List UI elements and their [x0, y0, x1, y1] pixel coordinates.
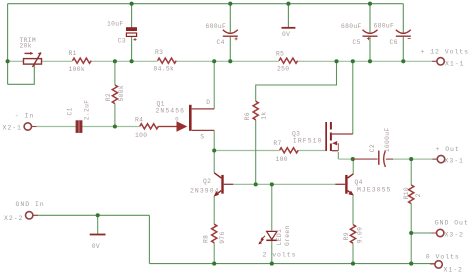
- svg-text:D: D: [206, 99, 210, 106]
- junction dots +Out rail: [351, 157, 355, 161]
- svg-text:2N5456: 2N5456: [156, 107, 186, 114]
- svg-text:R5: R5: [276, 51, 284, 58]
- svg-text:IRF510: IRF510: [293, 137, 323, 144]
- resistor R4 100: [140, 124, 159, 129]
- wire R9 bottom: [352, 243, 354, 263]
- svg-text:100: 100: [135, 132, 147, 139]
- potentiometer TRIM 20k: [24, 53, 42, 68]
- wire C2 right to R10/X3-1: [393, 158, 438, 160]
- svg-text:R6: R6: [244, 112, 251, 120]
- svg-text:100k: 100k: [69, 66, 86, 73]
- wire R7 to Q3 gate: [298, 150, 325, 152]
- junction dots base rail: [254, 182, 258, 186]
- junction dot GND out: [409, 231, 413, 235]
- svg-text:680uF: 680uF: [341, 23, 362, 30]
- svg-text:C4: C4: [217, 39, 225, 46]
- svg-text:X3-1: X3-1: [445, 157, 464, 164]
- terminal X3-2: [432, 232, 437, 234]
- svg-text:C5: C5: [353, 39, 361, 46]
- svg-text:0V: 0V: [92, 243, 100, 250]
- svg-text:2: 2: [415, 193, 422, 197]
- svg-text:+ Out: + Out: [436, 146, 460, 153]
- svg-text:Q3: Q3: [292, 130, 300, 137]
- wire -In X2-1 to C1: [32, 126, 76, 128]
- wire Q4 collector up: [352, 159, 354, 175]
- ground symbol 0V bottom: [90, 234, 106, 236]
- wire C3 leads: [131, 4, 133, 28]
- svg-text:C1: C1: [66, 107, 73, 115]
- wire Q3 source down: [337, 152, 339, 159]
- wire Q4 emitter down to R9: [352, 195, 354, 225]
- svg-text:0V: 0V: [282, 31, 290, 38]
- terminal X2-1: [32, 126, 37, 128]
- svg-text:S: S: [200, 133, 204, 140]
- svg-text:X1-2: X1-2: [444, 266, 463, 273]
- resistor R9 vertical: [350, 225, 355, 244]
- wire R10 top lead: [410, 159, 412, 185]
- capacitor C4 680uF polarized: [223, 30, 238, 34]
- wire C5 leads: [369, 4, 371, 33]
- svg-text:500k: 500k: [118, 85, 125, 102]
- terminal X3-1: [432, 158, 437, 160]
- wire pot wiper jog: [8, 65, 35, 85]
- wire R2 bottom lead: [114, 104, 116, 127]
- svg-text:G: G: [175, 117, 179, 123]
- capacitor C2 1000uF polarized: [378, 151, 380, 165]
- wire Q2 collector up: [213, 151, 215, 173]
- svg-text:976: 976: [219, 231, 226, 243]
- svg-text:Q4: Q4: [355, 179, 363, 186]
- svg-text:+ 12 Volts: + 12 Volts: [421, 48, 470, 55]
- capacitor C3 10uF polarized: [126, 27, 137, 31]
- svg-text:X2-2: X2-2: [4, 215, 23, 222]
- wire GND out horizontal: [411, 232, 436, 234]
- wire R4 to Q1 gate: [158, 126, 176, 128]
- wire C4 leads: [229, 4, 231, 33]
- svg-text:R9: R9: [343, 232, 350, 240]
- capacitor C5 680uF polarized: [363, 30, 378, 34]
- wire R6 bottom down to base rail: [255, 120, 257, 185]
- capacitor C1 2.2uF: [76, 120, 83, 133]
- wire Q2 base to Q4 base: [233, 183, 335, 185]
- wire R8 bottom: [213, 243, 215, 264]
- terminal X1-2: [430, 263, 435, 265]
- svg-text:250: 250: [277, 65, 289, 72]
- junction dots bottom rail: [212, 262, 216, 266]
- wire Q1 source down: [213, 130, 215, 150]
- svg-text:84.5k: 84.5k: [154, 65, 175, 72]
- svg-text:Q2: Q2: [203, 178, 211, 185]
- resistor R6 1k vertical: [253, 101, 258, 120]
- svg-text:Green: Green: [284, 225, 291, 246]
- wire bottom rail: [149, 263, 434, 265]
- svg-text:GND Out: GND Out: [435, 220, 469, 227]
- wire left vertical drop: [7, 4, 9, 85]
- wire ground 0V top lead: [287, 4, 289, 27]
- svg-text:MJE3055: MJE3055: [357, 186, 392, 193]
- svg-text:X2-1: X2-1: [3, 125, 22, 132]
- ground symbol 0V top: [282, 27, 296, 29]
- svg-text:R8: R8: [202, 235, 209, 243]
- svg-text:20k: 20k: [20, 43, 32, 50]
- wire GND In run: [33, 214, 149, 216]
- svg-text:R4: R4: [135, 116, 143, 123]
- svg-text:2.2uF: 2.2uF: [83, 100, 90, 121]
- wire R2 top lead: [114, 61, 116, 85]
- svg-text:1k: 1k: [261, 112, 268, 120]
- wire main rail segment pot to R1: [42, 60, 73, 62]
- wire C6 leads: [402, 4, 404, 33]
- svg-text:LED1: LED1: [276, 229, 283, 246]
- terminal X2-2: [33, 214, 38, 216]
- wire LED bottom: [271, 241, 273, 264]
- wire top rail 0V: [8, 3, 404, 5]
- svg-text:10uF: 10uF: [107, 20, 124, 27]
- svg-text:100: 100: [276, 156, 288, 163]
- wire main rail segment R1 to R3: [91, 60, 158, 62]
- wire GND In drop: [148, 215, 150, 263]
- wire main rail segment pot-left: [8, 60, 24, 62]
- svg-text:C6: C6: [390, 39, 398, 46]
- svg-text:R1: R1: [69, 50, 77, 57]
- resistor R10 2 vertical: [409, 185, 414, 204]
- svg-text:1000uF: 1000uF: [384, 128, 391, 153]
- svg-text:R2: R2: [105, 93, 112, 101]
- terminal X1-1: [432, 60, 437, 62]
- svg-text:X1-1: X1-1: [445, 60, 464, 67]
- wire Q3 source to +Out rail: [338, 158, 353, 160]
- wire R6 top jog to main rail: [256, 61, 337, 101]
- wire R10 bottom lead: [410, 204, 412, 233]
- LED1 Green: [267, 231, 277, 239]
- junction dot node C1/R2: [113, 124, 117, 128]
- svg-text:R3: R3: [155, 49, 163, 56]
- capacitor C6 680uF polarized: [396, 30, 411, 34]
- svg-text:C3: C3: [118, 38, 126, 45]
- svg-text:2 volts: 2 volts: [263, 251, 297, 258]
- wire source node to R7: [214, 150, 279, 152]
- resistor R1 100k: [73, 58, 92, 63]
- svg-text:2N3904: 2N3904: [190, 187, 220, 194]
- resistor R7 100: [280, 148, 299, 153]
- wire GND out vertical: [410, 233, 412, 264]
- resistor R3 84.5k: [158, 58, 177, 63]
- svg-text:- In: - In: [15, 112, 34, 119]
- transistor Q3 IRF510 MOSFET: [325, 122, 327, 151]
- resistor R5 250: [279, 58, 298, 63]
- wire main rail segment R5 to X1-1: [298, 60, 437, 62]
- junction dots top rail: [130, 2, 134, 6]
- junction dots main rail: [6, 59, 10, 63]
- svg-text:X3-2: X3-2: [445, 231, 464, 238]
- transistor Q4 MJE3055: [345, 175, 347, 194]
- wire Q1 drain up: [213, 61, 215, 109]
- svg-text:GND In: GND In: [16, 201, 45, 208]
- svg-text:9.09: 9.09: [356, 227, 363, 244]
- wire main rail segment R3 to R5: [176, 60, 279, 62]
- svg-text:680uF: 680uF: [206, 23, 227, 30]
- svg-text:R7: R7: [273, 140, 281, 147]
- resistor R8 976 vertical: [212, 224, 217, 243]
- wire LED top: [271, 184, 273, 230]
- wire Q3 drain up: [352, 61, 354, 134]
- resistor R2 500k vertical: [112, 85, 117, 104]
- junction dot Q1 source node: [212, 148, 216, 152]
- svg-text:R10: R10: [403, 187, 410, 199]
- wire Q2 emitter to R8: [213, 196, 215, 224]
- transistor Q2 2N3904: [221, 175, 223, 194]
- junction dot GND in: [96, 213, 100, 217]
- transistor Q1 2N5456 JFET: [189, 105, 192, 131]
- svg-text:C2: C2: [369, 144, 376, 152]
- svg-text:0 Volts: 0 Volts: [426, 253, 460, 260]
- wire C1 to R4: [82, 126, 139, 128]
- wire ground 0V bottom lead: [97, 215, 99, 234]
- svg-text:680uF: 680uF: [374, 22, 395, 29]
